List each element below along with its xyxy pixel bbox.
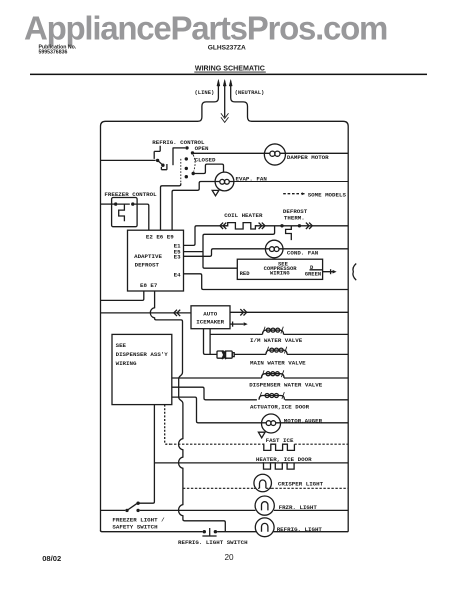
- wire: evap fan left to E9 riser: [172, 182, 215, 231]
- wire: icemaker box drop left: [204, 329, 217, 355]
- crisper light: [254, 474, 272, 492]
- refrig control terminal bracket: [154, 146, 167, 170]
- svg-text:SOME MODELS: SOME MODELS: [308, 191, 347, 198]
- header: title wiring schematic: [194, 65, 265, 73]
- compressor box: [237, 259, 322, 279]
- svg-text:SAFETY SWITCH: SAFETY SWITCH: [112, 524, 158, 531]
- dispenser assy box: [112, 334, 172, 404]
- svg-text:REFRIG. LIGHT: REFRIG. LIGHT: [277, 526, 323, 533]
- label FAST ICE: [266, 437, 294, 444]
- svg-text:ACTUATOR,ICE DOOR: ACTUATOR,ICE DOOR: [250, 404, 310, 411]
- wire: bottom bus to refrig light switch: [101, 530, 203, 532]
- label EVAP. FAN: [236, 175, 268, 182]
- label MOTOR, AUGER: [284, 418, 323, 425]
- wire: neutral prong to right bus, right bus down: [231, 89, 349, 532]
- wire: auto icemaker to bus: [230, 311, 348, 313]
- svg-text:FREEZER LIGHT /: FREEZER LIGHT /: [112, 517, 165, 524]
- label FREEZER LIGHT / SAFETY SWITCH: [112, 517, 165, 531]
- wire: E1 to coil heater: [184, 226, 228, 246]
- main valve connector pair: [217, 351, 234, 360]
- plug prong ground: [221, 80, 229, 123]
- wire: freezer switch lower contact to frzr light to bus: [140, 509, 348, 511]
- wire: bus to refrig control terminal: [101, 159, 156, 161]
- heater ice door element: [263, 463, 295, 469]
- svg-text:FRZR. LIGHT: FRZR. LIGHT: [279, 504, 318, 511]
- wire: refrig light wire to bus: [217, 531, 348, 533]
- label DEFROST THERM.: [283, 208, 308, 221]
- svg-text:HEATER, ICE DOOR: HEATER, ICE DOOR: [256, 456, 312, 463]
- actuator coil: [259, 392, 285, 400]
- label ACTUATOR, ICE DOOR: [250, 404, 310, 411]
- freezer control: [112, 198, 138, 227]
- svg-text:REFRIG. LIGHT SWITCH: REFRIG. LIGHT SWITCH: [178, 539, 248, 546]
- icemaker some-models stub arrow: [230, 322, 248, 327]
- wire: freezer switch upper contact up to dispenser box: [138, 405, 154, 504]
- wire: motor auger feed: [172, 397, 348, 423]
- i/m water valve coil: [263, 327, 284, 335]
- svg-text:20: 20: [225, 553, 235, 562]
- labels auto icemaker: [196, 311, 224, 326]
- wire: actuator feed: [172, 387, 348, 400]
- svg-text:COIL HEATER: COIL HEATER: [224, 212, 263, 219]
- label (NEUTRAL): [235, 89, 265, 96]
- fast ice heater element: [263, 444, 295, 450]
- wire: bus to auto icemaker: [101, 312, 192, 314]
- wire: linkage to E6 riser: [161, 183, 181, 230]
- header: publication no: [39, 44, 77, 55]
- svg-text:ICEMAKER: ICEMAKER: [196, 318, 224, 325]
- svg-text:WIRING: WIRING: [270, 270, 291, 277]
- label CLOSED: [195, 157, 216, 164]
- wire: fast ice dashed: [170, 443, 348, 445]
- wire: E3 to cond fan: [184, 249, 266, 256]
- wire: open contact to damper motor to bus: [194, 152, 349, 154]
- svg-text:(NEUTRAL): (NEUTRAL): [235, 89, 265, 96]
- svg-text:E2 E6 E9: E2 E6 E9: [146, 234, 174, 241]
- svg-text:THERM.: THERM.: [284, 214, 305, 221]
- label COND. FAN: [287, 250, 319, 257]
- wire: icemaker box drop right: [209, 329, 211, 355]
- footer date 08/02: [42, 554, 61, 563]
- svg-text:5995376836: 5995376836: [39, 50, 68, 56]
- wire: main water valve: [234, 353, 348, 355]
- plug prong neutral: [229, 80, 232, 89]
- wire: E4 to lower bus wire: [184, 274, 349, 290]
- label HEATER, ICE DOOR: [256, 456, 312, 463]
- frzr light: [255, 496, 274, 515]
- svg-text:COND. FAN: COND. FAN: [287, 250, 319, 257]
- freezer light safety switch: [125, 502, 140, 513]
- some models legend: [283, 192, 305, 195]
- wire: dispenser water valve feed: [172, 377, 348, 379]
- svg-text:GREEN: GREEN: [305, 270, 322, 277]
- svg-text:OPEN: OPEN: [195, 145, 209, 152]
- labels compressor: [240, 260, 322, 277]
- header: model number: [208, 44, 246, 51]
- wire: bus to freezer control: [101, 203, 115, 205]
- evap fan: [212, 172, 348, 196]
- svg-text:CLOSED: CLOSED: [195, 157, 216, 164]
- header rule: [30, 74, 427, 76]
- refrig light: [255, 518, 274, 537]
- label REFRIG. LIGHT SWITCH: [178, 539, 248, 546]
- labels adaptive defrost pins: [134, 234, 181, 289]
- svg-text:EVAP. FAN: EVAP. FAN: [236, 175, 268, 182]
- label COIL HEATER: [224, 212, 263, 219]
- cond fan: [265, 240, 283, 258]
- svg-text:WIRING: WIRING: [116, 360, 137, 367]
- svg-text:E3: E3: [174, 254, 181, 261]
- svg-text:MOTOR,AUGER: MOTOR,AUGER: [284, 418, 323, 425]
- label DAMPER MOTOR: [287, 154, 329, 161]
- svg-text:DEFROST: DEFROST: [135, 262, 160, 269]
- dispenser water valve coil: [262, 370, 285, 378]
- svg-text:E4: E4: [174, 271, 181, 278]
- connector bracket on bus: [353, 264, 356, 281]
- coil heater chevrons right: [259, 223, 265, 229]
- wire: E7 down and over: [150, 291, 225, 532]
- damper motor: [264, 144, 285, 165]
- coil heater chevrons left: [220, 223, 226, 229]
- wire: E8 to bus: [101, 291, 144, 300]
- wire: green output arrow: [310, 269, 337, 274]
- svg-text:MAIN WATER VALVE: MAIN WATER VALVE: [250, 359, 306, 366]
- main water valve coil: [266, 347, 287, 355]
- coil heater element: [226, 223, 257, 229]
- wire: closed contact to evap fan top: [193, 164, 223, 173]
- svg-text:FAST ICE: FAST ICE: [266, 437, 294, 444]
- wire: cond fan to bus: [283, 248, 348, 250]
- wire: line prong to left bus, left bus down: [101, 89, 219, 532]
- svg-text:CRISPER LIGHT: CRISPER LIGHT: [278, 480, 324, 487]
- svg-text:GLHS237ZA: GLHS237ZA: [208, 44, 246, 51]
- svg-text:WIRING SCHEMATIC: WIRING SCHEMATIC: [195, 65, 265, 73]
- header: site watermark: [24, 9, 387, 46]
- freezer control label: [104, 191, 157, 198]
- defrost therm: [280, 223, 312, 241]
- svg-text:AUTO: AUTO: [203, 311, 217, 318]
- svg-text:(LINE): (LINE): [195, 89, 215, 96]
- auto icemaker box: [191, 306, 230, 329]
- svg-text:ADAPTIVE: ADAPTIVE: [134, 253, 162, 260]
- wire: freezer control to E2: [135, 204, 149, 230]
- motor auger: [258, 414, 280, 438]
- label SOME MODELS: [308, 191, 347, 198]
- refrig control label: [152, 139, 205, 146]
- label REFRIG. LIGHT: [277, 526, 323, 533]
- svg-text:AppliancePartsPros.com: AppliancePartsPros.com: [24, 9, 387, 46]
- label FRZR. LIGHT: [279, 504, 318, 511]
- refrig control switch: [156, 146, 195, 183]
- wire: heater ice door: [154, 462, 348, 464]
- wire: bus to freezer light switch: [101, 509, 126, 511]
- wire: E5 stub: [184, 251, 204, 253]
- adaptive defrost board: [128, 230, 184, 291]
- svg-text:I/M WATER VALVE: I/M WATER VALVE: [250, 337, 303, 344]
- label CRISPER LIGHT: [278, 480, 324, 487]
- svg-text:SEE: SEE: [116, 342, 127, 349]
- page number 20: [225, 553, 235, 562]
- svg-text:DISPENSER ASS'Y: DISPENSER ASS'Y: [116, 351, 169, 358]
- wire: heater to defrost therm to bus: [255, 225, 348, 227]
- label I/M WATER VALVE: [250, 337, 303, 344]
- labels dispenser box: [116, 342, 169, 367]
- svg-text:DISPENSER WATER VALVE: DISPENSER WATER VALVE: [249, 381, 323, 388]
- label MAIN WATER VALVE: [250, 359, 306, 366]
- chevrons auto icemaker left: [174, 310, 180, 316]
- chevrons auto icemaker right: [240, 309, 246, 315]
- svg-text:08/02: 08/02: [42, 554, 61, 563]
- svg-text:E8 E7: E8 E7: [140, 282, 158, 289]
- wire: therm branch down to compressor red: [203, 226, 275, 268]
- label OPEN: [195, 145, 209, 152]
- svg-text:RED: RED: [240, 270, 251, 277]
- wire: i/m water valve: [210, 333, 348, 335]
- label DISPENSER WATER VALVE: [249, 381, 323, 388]
- plug prong line: [217, 80, 220, 89]
- svg-text:DAMPER MOTOR: DAMPER MOTOR: [287, 154, 329, 161]
- label (LINE): [195, 89, 215, 96]
- refrig light switch: [202, 528, 217, 536]
- wire: dispenser box bottom dashed drop: [165, 405, 170, 445]
- wire: crisper dashed: [183, 487, 348, 489]
